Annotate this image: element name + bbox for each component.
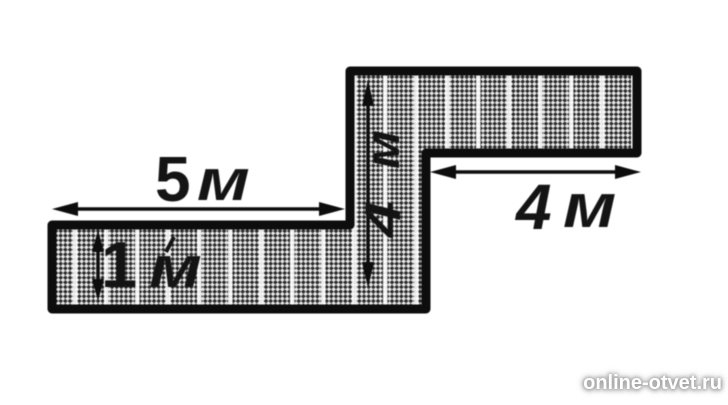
svg-text:м: м bbox=[149, 234, 202, 299]
svg-text:м: м bbox=[197, 147, 250, 212]
dimension arrow 5m bbox=[52, 202, 345, 216]
label 4m vertical (rotated) bbox=[355, 130, 411, 239]
svg-text:1: 1 bbox=[101, 228, 137, 301]
svg-text:м: м bbox=[355, 130, 409, 169]
dimension arrow 1m bbox=[92, 230, 104, 301]
svg-text:м: м bbox=[563, 172, 616, 241]
figure outline bbox=[52, 71, 637, 309]
dimension arrow 4m horizontal bbox=[430, 165, 641, 179]
Z-shaped figure: filled polygon with hatch bbox=[52, 71, 637, 309]
watermark bbox=[583, 372, 722, 395]
svg-text:4: 4 bbox=[514, 171, 552, 243]
vertical white stripes in hatch bbox=[73, 60, 636, 320]
svg-text:4: 4 bbox=[356, 201, 411, 238]
svg-text:5: 5 bbox=[155, 143, 191, 215]
dimension arrow 4m vertical bbox=[362, 80, 374, 288]
